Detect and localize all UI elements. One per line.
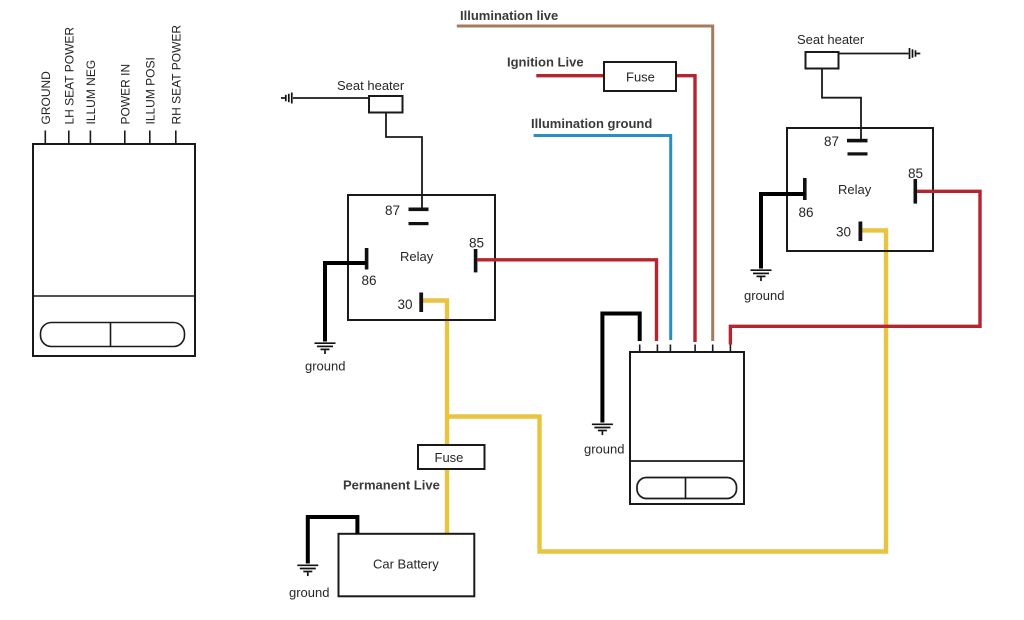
svg-text:85: 85: [469, 236, 484, 251]
svg-text:ground: ground: [289, 585, 329, 600]
pin tick POWER IN: [124, 131, 126, 145]
pin tick RH SEAT POWER: [175, 131, 177, 145]
K2 pin 30: [836, 222, 862, 242]
K2 pin 86: [799, 178, 814, 220]
ground symbol S1: [592, 424, 613, 435]
S1 pin tick 4: [694, 345, 696, 353]
svg-text:Illumination live: Illumination live: [460, 8, 558, 23]
switch block S1: [630, 352, 744, 504]
svg-text:ground: ground: [584, 442, 624, 457]
svg-text:87: 87: [824, 134, 839, 149]
wire K2 86 to ground: [761, 194, 805, 269]
K1 pin 86: [362, 248, 377, 288]
pin tick GROUND: [44, 131, 46, 145]
svg-text:85: 85: [908, 166, 923, 181]
wire permanent live (yellow) battery to K1 30: [423, 301, 447, 534]
relay K2 right: [787, 128, 933, 251]
S1 pin tick 5: [712, 345, 714, 353]
wire illumination live (brown): [457, 26, 713, 341]
pin tick LH SEAT POWER: [68, 131, 70, 145]
svg-text:30: 30: [398, 297, 413, 312]
svg-text:LH SEAT POWER: LH SEAT POWER: [62, 27, 76, 125]
svg-text:Car Battery: Car Battery: [373, 557, 439, 572]
seat heater element right HR: [797, 32, 865, 69]
wire K1 86 to ground: [325, 263, 367, 342]
svg-text:87: 87: [385, 203, 400, 218]
wire battery to ground: [308, 517, 358, 564]
pin tick ILLUM POSI: [149, 131, 151, 145]
seat heater element left HL: [337, 78, 405, 113]
svg-text:86: 86: [362, 273, 377, 288]
svg-text:ground: ground: [744, 288, 784, 303]
K1 pin 87: [385, 203, 429, 225]
wire K2 85 to switch pin 6 (red): [730, 191, 980, 344]
wire seat heater right to chassis: [839, 53, 909, 55]
relay K1 left: [348, 195, 495, 320]
ground symbol K1: [315, 343, 336, 354]
K2 pin 85: [908, 166, 923, 204]
wire ignition live (red) through fuse: [536, 76, 695, 342]
svg-text:GROUND: GROUND: [39, 71, 53, 125]
wire K1 85 to switch pin 2 (red): [477, 260, 657, 341]
S1 pin tick 3: [669, 345, 671, 353]
chassis ground symbol right: [910, 48, 921, 59]
svg-text:ground: ground: [305, 359, 345, 374]
K2 pin 87: [824, 134, 868, 156]
K1 pin 30: [398, 293, 424, 313]
svg-text:ILLUM NEG: ILLUM NEG: [84, 60, 98, 125]
ground symbol K2: [751, 270, 772, 281]
svg-text:Permanent Live: Permanent Live: [343, 478, 440, 493]
svg-text:Fuse: Fuse: [626, 70, 655, 85]
svg-text:86: 86: [799, 205, 814, 220]
svg-text:POWER IN: POWER IN: [118, 64, 132, 125]
wire illumination ground (blue): [534, 136, 671, 341]
wire S1 pin1 to ground (black): [602, 314, 639, 423]
wire seat heater right to K2 pin 87: [822, 69, 861, 140]
svg-text:Illumination ground: Illumination ground: [531, 116, 652, 131]
battery B1: [339, 534, 475, 597]
wire seat heater left to chassis: [293, 97, 369, 99]
svg-text:Relay: Relay: [838, 182, 872, 197]
pin tick ILLUM NEG: [89, 131, 91, 145]
svg-text:Fuse: Fuse: [435, 450, 464, 465]
svg-text:Ignition Live: Ignition Live: [507, 55, 584, 70]
fuse F2 bottom: [418, 445, 485, 469]
S1 pin tick 2: [656, 345, 658, 353]
svg-text:RH SEAT POWER: RH SEAT POWER: [169, 25, 183, 125]
connector block J1: [33, 144, 195, 356]
svg-text:ILLUM POSI: ILLUM POSI: [143, 57, 157, 124]
svg-text:30: 30: [836, 225, 851, 240]
S1 pin tick 1: [639, 345, 641, 353]
wire yellow branch to K2 30: [447, 230, 886, 551]
svg-text:Relay: Relay: [400, 249, 434, 264]
chassis ground symbol left: [281, 93, 292, 104]
svg-text:Seat heater: Seat heater: [337, 78, 405, 93]
wire seat heater left to relay pin 87: [386, 113, 422, 210]
K1 pin 85: [469, 236, 484, 273]
fuse F1 top: [604, 62, 676, 91]
svg-text:Seat heater: Seat heater: [797, 32, 865, 47]
S1 pin tick 6: [729, 345, 731, 353]
ground symbol battery: [297, 565, 318, 576]
